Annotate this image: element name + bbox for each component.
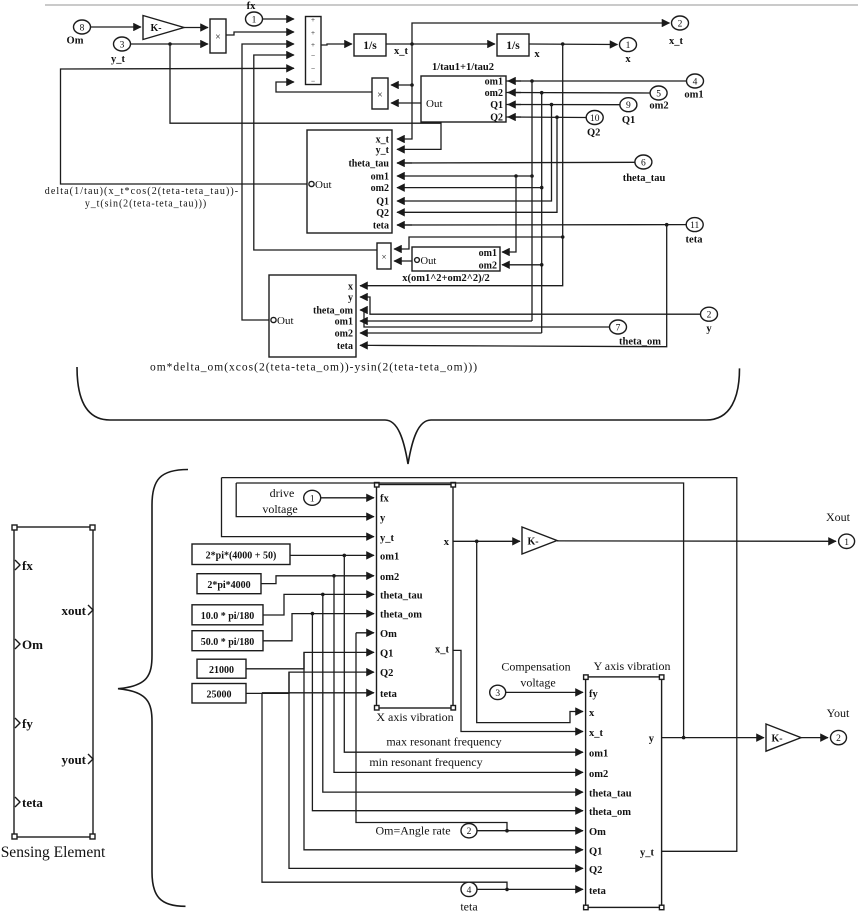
svg-text:theta_om: theta_om bbox=[619, 337, 661, 348]
svg-text:Om: Om bbox=[380, 629, 397, 640]
svg-text:Om: Om bbox=[67, 36, 84, 47]
wire om1 branch to x(om1^2) block bbox=[502, 176, 516, 252]
svg-text:max resonant frequency: max resonant frequency bbox=[386, 735, 501, 749]
wire om2 into om-delta block bbox=[360, 332, 542, 334]
svg-text:1/s: 1/s bbox=[363, 40, 377, 52]
wire x_t branch to product2 input bbox=[391, 84, 412, 86]
svg-text:om2: om2 bbox=[479, 261, 497, 272]
svg-text:teta: teta bbox=[460, 900, 478, 914]
svg-text:7: 7 bbox=[616, 324, 621, 334]
integrator 1/s #1 bbox=[354, 34, 386, 56]
svg-text:4: 4 bbox=[693, 78, 698, 88]
wire y feedback riser bbox=[236, 483, 683, 738]
wire y feedback into X block bbox=[236, 483, 374, 517]
wire theta_tau row to inport6 bbox=[397, 161, 635, 164]
wire x_t out of X block to Y block bbox=[453, 650, 583, 731]
svg-text:theta_tau: theta_tau bbox=[623, 173, 666, 184]
svg-text:+: + bbox=[311, 28, 315, 37]
product Om*y_t bbox=[210, 19, 226, 53]
svg-text:+: + bbox=[311, 40, 315, 49]
svg-text:1: 1 bbox=[252, 16, 257, 26]
wire integrator1 to integrator2 with junction at 412 bbox=[386, 42, 495, 46]
constant 2*pi*4000 bbox=[197, 574, 261, 594]
svg-text:theta_tau: theta_tau bbox=[380, 591, 423, 602]
constant 25000 bbox=[192, 684, 246, 704]
wire Q1 row to inport9 bbox=[506, 103, 620, 107]
constant 10.0*pi/180 bbox=[192, 605, 263, 625]
svg-text:y: y bbox=[706, 324, 712, 335]
wire teta row to inport11 bbox=[397, 223, 686, 227]
svg-text:x_t: x_t bbox=[669, 36, 684, 47]
svg-text:om2: om2 bbox=[335, 329, 353, 340]
gain Yout K- bbox=[766, 724, 801, 751]
svg-text:×: × bbox=[377, 90, 383, 101]
svg-text:x: x bbox=[534, 49, 540, 60]
gain Xout K- bbox=[522, 527, 557, 554]
svg-text:X axis vibration: X axis vibration bbox=[376, 710, 453, 724]
wire y output of Y block to Yout gain bbox=[662, 736, 764, 740]
svg-text:2: 2 bbox=[467, 827, 472, 837]
svg-text:om2: om2 bbox=[380, 572, 399, 583]
svg-text:25000: 25000 bbox=[207, 690, 232, 701]
svg-text:y: y bbox=[649, 734, 655, 745]
svg-text:Sensing Element: Sensing Element bbox=[1, 844, 106, 861]
svg-text:teta: teta bbox=[373, 221, 389, 232]
wire x net down into om-delta block bbox=[360, 237, 563, 286]
svg-text:x: x bbox=[444, 537, 450, 548]
svg-text:teta: teta bbox=[686, 235, 704, 246]
inport 7 theta_om bbox=[610, 320, 662, 348]
wire theta_om inport7 to om-delta block bbox=[360, 310, 610, 327]
wire theta_om const to X block bbox=[263, 612, 374, 641]
svg-text:6: 6 bbox=[641, 159, 646, 169]
wire om2 riser to Y block bbox=[334, 576, 583, 773]
svg-text:Xout: Xout bbox=[826, 510, 851, 524]
inport 3 compensation bbox=[490, 685, 506, 699]
inport 10 Q2 bbox=[586, 111, 603, 139]
wire product to sum input2 bbox=[226, 32, 294, 35]
sum block bbox=[306, 15, 322, 86]
svg-text:2: 2 bbox=[836, 734, 841, 744]
svg-text:teta: teta bbox=[380, 689, 398, 700]
product2 (delta*x_t) bbox=[372, 78, 388, 109]
svg-text:1: 1 bbox=[844, 538, 849, 548]
svg-text:1: 1 bbox=[310, 495, 315, 505]
wire theta_tau const to X block bbox=[263, 593, 374, 615]
svg-text:y_t: y_t bbox=[376, 145, 390, 156]
inport 1 fx bbox=[246, 1, 263, 26]
svg-text:9: 9 bbox=[626, 101, 631, 111]
svg-text:−: − bbox=[311, 77, 315, 86]
svg-text:om1: om1 bbox=[371, 172, 389, 183]
wire x net vertical and to product3 bbox=[394, 44, 563, 249]
svg-text:theta_tau: theta_tau bbox=[348, 159, 389, 170]
svg-text:×: × bbox=[215, 32, 221, 43]
subsystem 1/tau1+1/tau2 bbox=[421, 76, 506, 124]
svg-text:delta(1/tau)(x_t*cos(2(teta-te: delta(1/tau)(x_t*cos(2(teta-teta_tau))- bbox=[45, 186, 240, 197]
svg-text:x: x bbox=[589, 708, 595, 719]
svg-text:Q2: Q2 bbox=[589, 865, 602, 876]
port xout of Sensing Element bbox=[61, 603, 93, 618]
svg-text:fy: fy bbox=[589, 689, 598, 700]
svg-text:Out: Out bbox=[426, 98, 443, 110]
wire om2 riser bbox=[540, 93, 544, 334]
wire Q2 row to inport10 bbox=[506, 115, 586, 119]
svg-text:Out: Out bbox=[315, 179, 332, 191]
constant 21000 bbox=[197, 659, 246, 678]
inport 11 teta bbox=[686, 218, 704, 246]
wire theta_om riser to Y block bbox=[312, 614, 583, 811]
wire gain to product bbox=[184, 27, 208, 29]
Y axis vibration block bbox=[584, 675, 664, 910]
svg-text:om*delta_om(xcos(2(teta-teta_o: om*delta_om(xcos(2(teta-teta_om))-ysin(2… bbox=[150, 362, 478, 374]
wire Q1 riser to Y block bbox=[304, 652, 583, 849]
Sensing Element block bbox=[12, 525, 95, 839]
wire product3 out to sum input4 bbox=[254, 55, 377, 250]
svg-text:1/s: 1/s bbox=[506, 40, 520, 52]
wire y_t feedback riser bbox=[222, 478, 737, 852]
wire product2 out to sum input6 bbox=[276, 82, 372, 92]
svg-text:y: y bbox=[348, 293, 353, 304]
svg-text:Q1: Q1 bbox=[380, 649, 393, 660]
svg-text:teta: teta bbox=[589, 886, 607, 897]
wire Q1 const to X block bbox=[246, 652, 374, 668]
wire om2 row to inport5 bbox=[506, 91, 650, 95]
wire Om riser into X block bbox=[356, 632, 374, 634]
wire x output of X block bbox=[453, 540, 520, 544]
svg-text:y_t: y_t bbox=[640, 847, 655, 858]
wire om1 into om-delta block bbox=[360, 320, 532, 322]
drive voltage label bbox=[262, 486, 297, 516]
wire Q2 riser into delta block bbox=[397, 117, 557, 212]
svg-text:Q1: Q1 bbox=[490, 100, 503, 111]
svg-text:1/tau1+1/tau2: 1/tau1+1/tau2 bbox=[432, 62, 494, 73]
wire x drop to Y block bbox=[477, 541, 583, 722]
svg-text:om1: om1 bbox=[485, 77, 503, 88]
inport 2 angle rate bbox=[461, 824, 477, 838]
inport 5 om2 bbox=[649, 86, 668, 112]
svg-text:x: x bbox=[625, 54, 631, 65]
wire om2 into x(om1^2) block bbox=[502, 264, 542, 266]
svg-text:teta: teta bbox=[337, 341, 353, 352]
svg-text:4: 4 bbox=[467, 886, 472, 896]
outport 1 Xout bbox=[826, 510, 855, 549]
svg-text:om1: om1 bbox=[589, 749, 608, 760]
inport 3 y_t bbox=[111, 37, 131, 65]
svg-text:x_t: x_t bbox=[394, 46, 409, 57]
svg-text:Om: Om bbox=[22, 637, 43, 652]
wire om1sq out to product3 bbox=[394, 260, 412, 262]
svg-text:om1: om1 bbox=[380, 552, 399, 563]
wire Om to gain bbox=[91, 26, 142, 28]
svg-text:om2: om2 bbox=[371, 183, 389, 194]
svg-text:om1: om1 bbox=[479, 248, 497, 259]
inport 8 Om bbox=[67, 20, 91, 47]
svg-text:10.0 * pi/180: 10.0 * pi/180 bbox=[201, 611, 255, 622]
svg-text:xout: xout bbox=[61, 603, 86, 618]
brace left of bottom section bbox=[118, 470, 188, 907]
integrator 1/s #2 bbox=[497, 34, 529, 56]
port fx of Sensing Element bbox=[15, 558, 33, 573]
subsystem x(om1^2+om2^2)/2 bbox=[412, 247, 500, 272]
arrow theta_tau into delta block bbox=[397, 162, 412, 164]
wire om1 riser to Y block bbox=[344, 555, 583, 752]
svg-text:3: 3 bbox=[120, 41, 125, 51]
wire y_t net to delta y_t input bbox=[170, 44, 441, 149]
svg-text:theta_om: theta_om bbox=[589, 807, 631, 818]
subsystem om*delta_om bbox=[269, 275, 356, 357]
wire om-delta Out feedback to sum input3 bbox=[242, 44, 294, 320]
svg-text:x_t: x_t bbox=[589, 728, 604, 739]
svg-text:Q2: Q2 bbox=[380, 668, 393, 679]
wire drive voltage to fx bbox=[321, 497, 374, 499]
svg-text:y_t: y_t bbox=[380, 533, 395, 544]
svg-text:+: + bbox=[311, 15, 315, 24]
svg-text:−: − bbox=[311, 51, 315, 60]
svg-text:Compensation: Compensation bbox=[501, 659, 570, 673]
outport 2 x_t bbox=[669, 16, 689, 47]
svg-text:Q1: Q1 bbox=[622, 115, 635, 126]
wire om1 row to inport4 bbox=[506, 79, 687, 178]
wire teta down to om-delta block bbox=[360, 225, 667, 347]
wire sum to integrator1 bbox=[321, 44, 352, 45]
port teta of Sensing Element bbox=[15, 795, 43, 810]
wire Om riser and angle rate net bbox=[356, 633, 509, 833]
svg-text:−: − bbox=[311, 64, 315, 73]
wire Xout gain to outport bbox=[557, 540, 836, 542]
gain K- bbox=[143, 16, 184, 40]
svg-text:21000: 21000 bbox=[209, 665, 234, 676]
X axis vibration block bbox=[375, 483, 456, 711]
svg-text:fx: fx bbox=[22, 558, 33, 573]
svg-text:om2: om2 bbox=[485, 88, 503, 99]
wire teta riser into X block bbox=[262, 692, 374, 694]
port fy of Sensing Element bbox=[15, 716, 33, 731]
inport 1 drive voltage bbox=[304, 490, 321, 505]
svg-text:K-: K- bbox=[527, 537, 538, 548]
svg-text:11: 11 bbox=[690, 221, 699, 231]
svg-text:om1: om1 bbox=[684, 90, 703, 101]
svg-text:Out: Out bbox=[421, 256, 437, 267]
wire x_t down to delta block input bbox=[397, 44, 414, 139]
svg-text:theta_om: theta_om bbox=[380, 610, 422, 621]
svg-text:theta_om: theta_om bbox=[313, 306, 354, 317]
inport 9 Q1 bbox=[620, 98, 637, 126]
svg-text:Yout: Yout bbox=[827, 706, 850, 720]
svg-text:2: 2 bbox=[678, 20, 683, 30]
page top border artifact bbox=[45, 4, 858, 6]
wire Q2 riser to Y block bbox=[289, 672, 583, 868]
wire integrator2 to outport1 x with junction bbox=[529, 42, 618, 46]
inport 2 y bbox=[701, 307, 718, 334]
svg-text:voltage: voltage bbox=[520, 676, 555, 690]
svg-text:y_t: y_t bbox=[111, 54, 126, 65]
svg-text:teta: teta bbox=[22, 795, 43, 810]
svg-text:Om=Angle rate: Om=Angle rate bbox=[375, 824, 450, 838]
port Om of Sensing Element bbox=[15, 637, 43, 652]
svg-text:x_t: x_t bbox=[376, 135, 390, 146]
product3 (x*(om^2)) bbox=[377, 243, 391, 269]
inport 6 theta_tau bbox=[623, 155, 666, 184]
svg-text:yout: yout bbox=[61, 752, 86, 767]
wire y_t feedback into X block bbox=[222, 478, 375, 537]
svg-text:theta_tau: theta_tau bbox=[589, 789, 632, 800]
svg-text:fx: fx bbox=[247, 1, 256, 12]
svg-text:min resonant frequency: min resonant frequency bbox=[369, 755, 482, 769]
svg-text:5: 5 bbox=[656, 90, 661, 100]
svg-text:Y axis vibration: Y axis vibration bbox=[594, 659, 671, 673]
outport 1 x bbox=[620, 38, 637, 65]
svg-text:x(om1^2+om2^2)/2: x(om1^2+om2^2)/2 bbox=[402, 273, 490, 284]
inport 4 om1 bbox=[684, 74, 703, 101]
svg-text:2*pi*4000: 2*pi*4000 bbox=[207, 580, 250, 591]
wire angle rate to Y block bbox=[477, 830, 583, 832]
outport 2 Yout bbox=[827, 706, 850, 745]
svg-text:Q2: Q2 bbox=[490, 113, 503, 124]
brace horizontal under top section bbox=[77, 367, 740, 464]
wire om2 into delta block bbox=[397, 187, 542, 189]
svg-text:10: 10 bbox=[590, 114, 600, 124]
svg-text:y: y bbox=[380, 513, 386, 524]
svg-text:50.0 * pi/180: 50.0 * pi/180 bbox=[201, 637, 255, 648]
svg-text:voltage: voltage bbox=[262, 502, 297, 516]
wire om1 riser bbox=[530, 81, 534, 321]
svg-text:3: 3 bbox=[495, 689, 500, 699]
wire y_t to product with junction bbox=[131, 42, 209, 46]
svg-text:Q1: Q1 bbox=[589, 846, 602, 857]
svg-text:fy: fy bbox=[22, 716, 33, 731]
subsystem delta(1/tau) bbox=[307, 130, 392, 233]
wire teta to Y block bbox=[477, 888, 583, 890]
svg-text:y_t(sin(2(teta-teta_tau))): y_t(sin(2(teta-teta_tau))) bbox=[85, 199, 207, 210]
svg-text:2: 2 bbox=[707, 311, 712, 321]
svg-text:x_t: x_t bbox=[435, 645, 450, 656]
svg-text:x: x bbox=[348, 281, 353, 292]
inport 4 teta bbox=[460, 882, 478, 913]
wire theta_tau riser to Y block bbox=[323, 594, 583, 792]
svg-text:8: 8 bbox=[80, 24, 85, 34]
wire y inport2 to om-delta block bbox=[360, 297, 701, 314]
constant 2*pi*(4000+50) bbox=[192, 544, 290, 565]
wire Q2 const to X block bbox=[246, 672, 374, 693]
svg-text:Q1: Q1 bbox=[376, 197, 389, 208]
wire tau out to product2 bbox=[391, 102, 421, 104]
svg-text:Q2: Q2 bbox=[587, 128, 600, 139]
svg-text:K-: K- bbox=[150, 23, 161, 34]
wire delta Out feedback loop to sum input5 bbox=[61, 68, 308, 184]
svg-text:×: × bbox=[381, 252, 386, 262]
port yout of Sensing Element bbox=[61, 752, 93, 767]
wire om1 into delta block bbox=[397, 175, 532, 177]
wire fx to sum input1 bbox=[263, 18, 295, 20]
svg-text:Out: Out bbox=[277, 315, 294, 327]
svg-text:1: 1 bbox=[626, 41, 631, 51]
wire compensation to Y block fy bbox=[506, 691, 583, 693]
wire Q1 riser into delta block bbox=[397, 105, 552, 202]
svg-text:om1: om1 bbox=[335, 317, 353, 328]
svg-text:drive: drive bbox=[270, 486, 295, 500]
svg-text:om2: om2 bbox=[589, 769, 608, 780]
svg-text:om2: om2 bbox=[649, 101, 668, 112]
wire x_t to outport2 bbox=[412, 23, 670, 44]
svg-text:2*pi*(4000 + 50): 2*pi*(4000 + 50) bbox=[206, 551, 277, 562]
svg-text:K-: K- bbox=[771, 734, 782, 745]
junction x net bbox=[561, 235, 565, 239]
svg-text:Q2: Q2 bbox=[376, 208, 389, 219]
wire teta riser and teta net bbox=[262, 693, 509, 891]
wire om1 const to X block bbox=[290, 554, 374, 558]
wire om2 const to X block bbox=[261, 574, 374, 584]
constant 50.0*pi/180 bbox=[192, 631, 263, 651]
svg-text:fx: fx bbox=[380, 494, 389, 505]
svg-text:Om: Om bbox=[589, 827, 606, 838]
wire Yout gain to outport bbox=[801, 737, 828, 739]
label Compensation voltage bbox=[501, 659, 570, 689]
